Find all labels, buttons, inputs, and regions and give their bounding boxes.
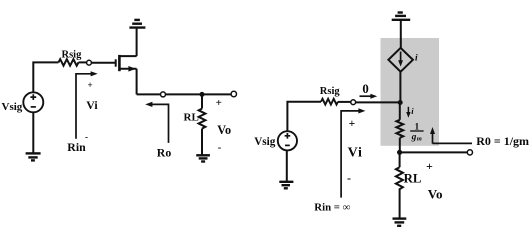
voltage source Vsig [23,92,43,112]
ground (top of model, flipped) [392,13,411,20]
wire RL to ground (model) [399,192,401,218]
svg-text:0: 0 [362,82,368,96]
svg-text:+: + [216,97,222,109]
svg-text:-: - [347,171,351,185]
junction dot source node (model) [397,150,402,155]
ground (below RL) [196,155,210,161]
wire gate node to transistor gate [91,62,115,64]
shaded transistor model region [381,38,440,146]
svg-text:Vsig: Vsig [2,101,23,113]
current source internal arrow [398,52,403,67]
Ro measurement arrow [145,102,168,143]
svg-text:m: m [417,135,422,142]
wire Vsig top to Rsig (model) [287,102,321,132]
wire current source to gate junction [399,72,401,103]
svg-text:g: g [411,133,417,143]
ground (below Vsig) [26,153,41,160]
voltage source Vsig (model) [278,131,297,150]
svg-text:Vi: Vi [348,146,363,161]
current arrow i (into 1/gm) [406,107,410,118]
svg-text:Rin = ∞: Rin = ∞ [314,201,350,213]
wire Rsig to gate node (model) [338,101,351,103]
resistor Rsig (model) [321,99,338,105]
wire gate node to gate junction (model) [356,101,400,103]
wire RL to ground [201,129,203,156]
transistor Q1 (NMOS) [116,55,137,71]
svg-text:+: + [88,80,93,90]
wire Vsig bottom to ground [32,112,34,153]
zero-current arrow [360,94,378,99]
svg-text:+: + [349,118,356,130]
wire Rsig to gate node [79,61,87,63]
wire output node to RL [201,94,203,108]
ground (AC ground at drain, flipped) [129,20,145,28]
ground (below RL, model) [393,219,407,226]
resistor 1/gm [396,120,403,138]
svg-text:Vsig: Vsig [254,136,276,148]
svg-text:1: 1 [415,121,420,131]
svg-text:-: - [218,142,222,154]
junction dot output node [200,92,205,97]
svg-text:Vi: Vi [86,98,98,112]
svg-text:Rin: Rin [67,140,86,154]
resistor RL (model) [396,167,403,191]
wire drain up to ground [136,28,138,56]
Vi measurement arrow (model) [341,108,365,197]
resistor RL [199,109,206,129]
svg-text:Vo: Vo [428,186,443,201]
svg-text:RL: RL [404,171,422,185]
svg-text:Rsig: Rsig [320,86,341,97]
svg-text:RL: RL [184,111,199,123]
resistor Rsig [59,59,79,65]
svg-text:Ro: Ro [157,146,172,160]
wire Vsig bottom to ground (model) [286,150,288,181]
wire gate junction to 1/gm resistor [399,103,401,120]
node gate terminal (open circle) [87,60,92,65]
junction dot gate node (model) [398,100,403,105]
node gate (open circle, model) [351,100,356,105]
R0 measurement arrow (looking into source) [430,127,472,144]
wire Vsig top to Rsig [33,62,58,92]
ground (below Vsig, model) [279,182,293,189]
dependent current source (diamond) [388,48,413,72]
terminal (open circle, model output) [467,150,472,155]
wire 1/gm resistor to source junction [399,138,401,153]
node source terminal (open circle) [161,92,166,97]
Rin measurement arrow [76,71,98,139]
wire source down to output rail [136,69,138,95]
label 1/gm fraction [410,121,423,142]
svg-text:Vo: Vo [217,123,231,137]
wire source node to RL (model) [399,152,401,167]
transistor source arrowhead [128,66,135,72]
wire output rail [137,93,231,95]
terminal Vo (open circle) [231,91,236,96]
wire top ground to current source [400,20,402,48]
svg-text:R0 = 1/gm: R0 = 1/gm [476,134,529,148]
svg-text:+: + [426,159,433,173]
svg-text:Rsig: Rsig [62,49,83,60]
svg-text:i: i [415,53,418,63]
wire source node to output terminal (model) [400,151,468,153]
